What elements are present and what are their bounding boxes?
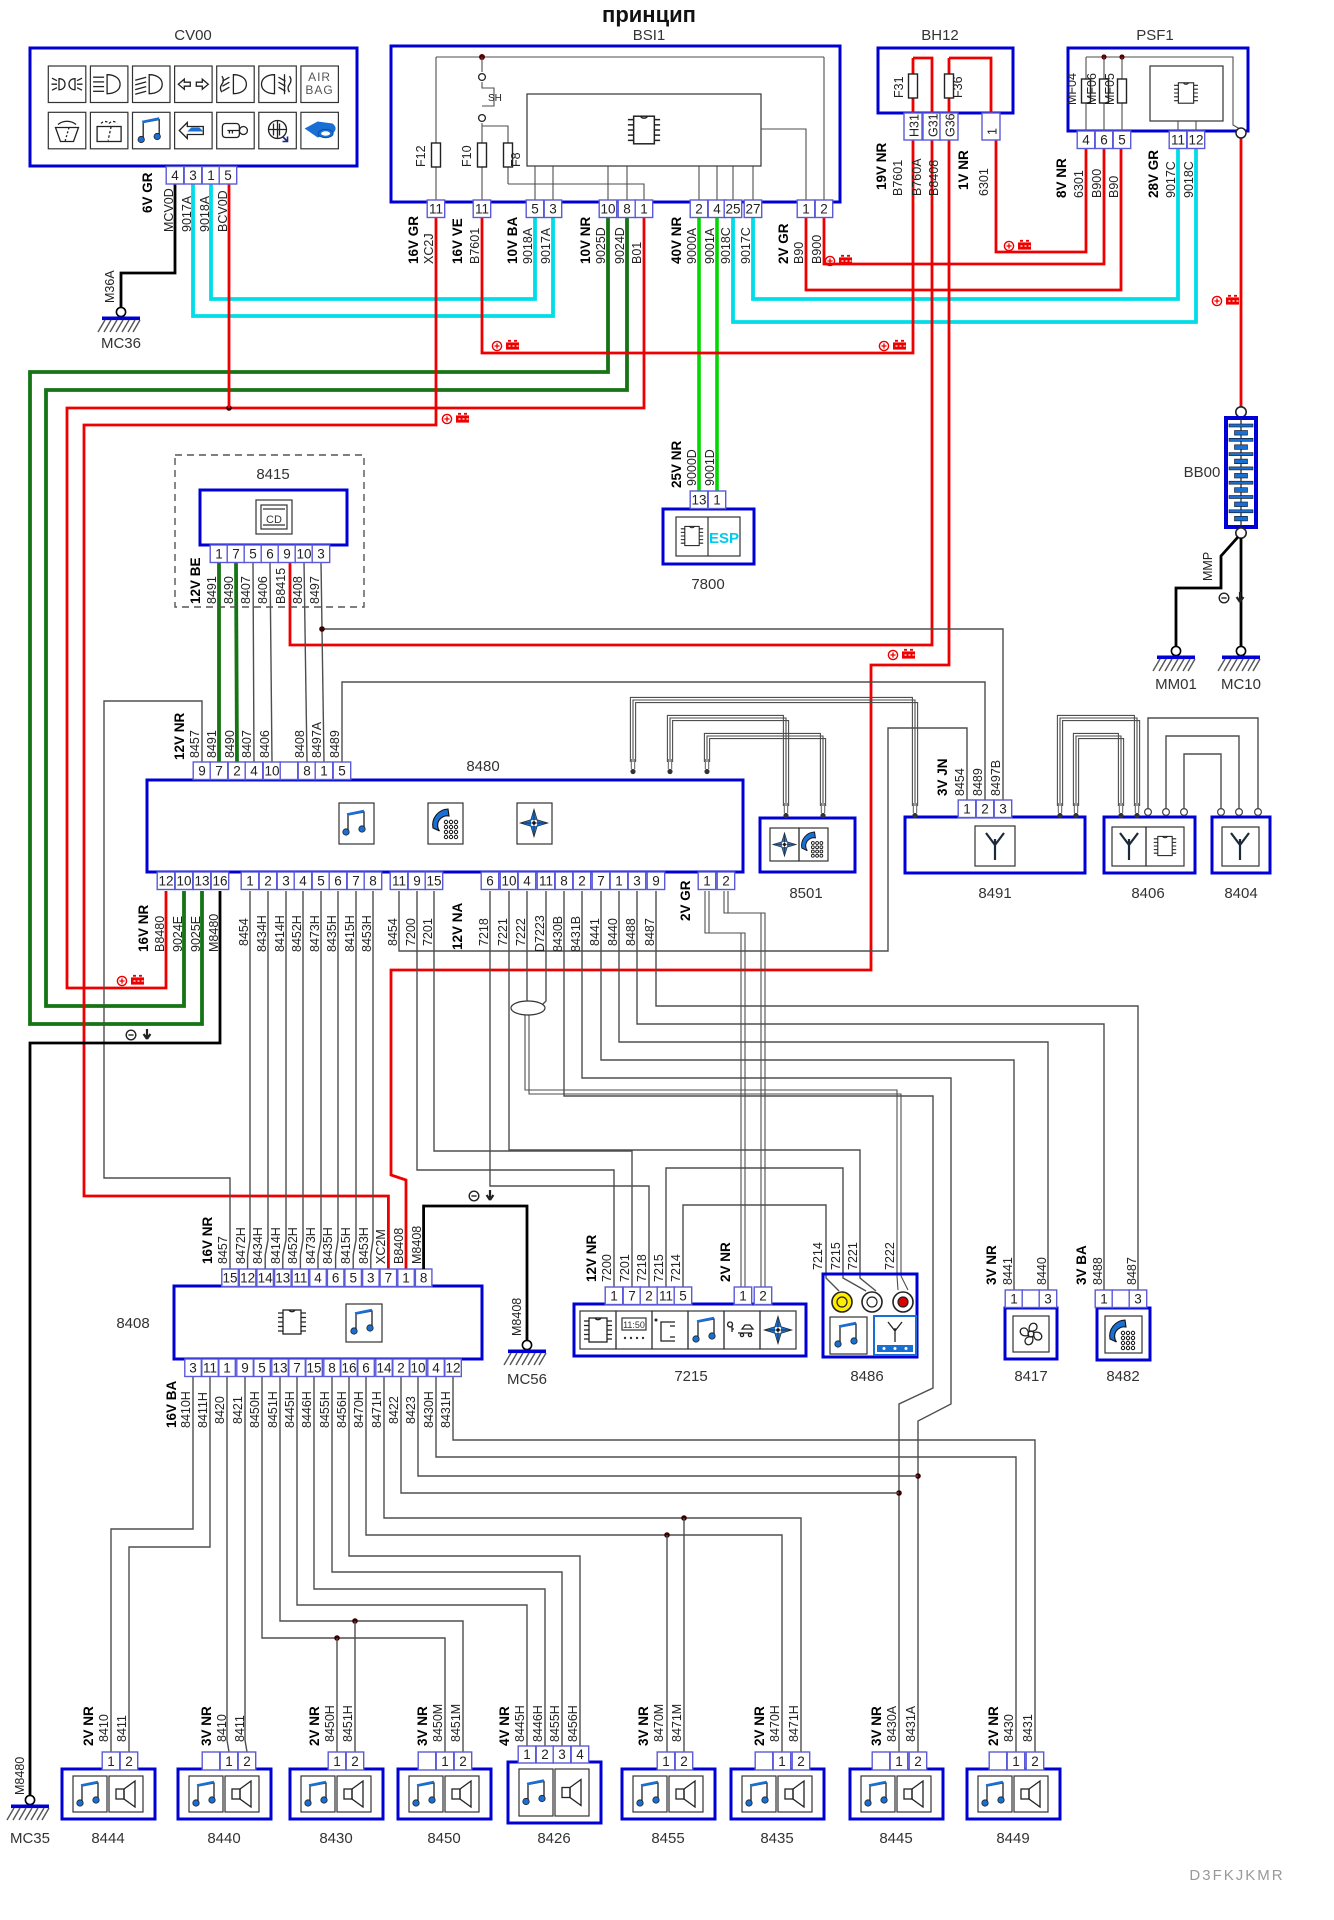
- speaker 8450: [398, 1769, 491, 1819]
- antenna module 8406: [1104, 817, 1195, 873]
- svg-text:9024E: 9024E: [171, 916, 185, 952]
- junction 8430A: [896, 1490, 902, 1496]
- wire 8431 long: [453, 1376, 1035, 1752]
- svg-text:BB00: BB00: [1184, 464, 1221, 481]
- battery symbol XC2J: [442, 414, 469, 424]
- svg-text:4: 4: [171, 168, 179, 183]
- svg-text:6301: 6301: [1072, 170, 1086, 198]
- svg-text:8453H: 8453H: [357, 1227, 371, 1264]
- battery symbol B8480: [117, 976, 144, 986]
- ground MC36: [98, 307, 140, 332]
- wire 8471M branch to 8455: [683, 1518, 685, 1752]
- svg-text:8410: 8410: [97, 1714, 111, 1742]
- svg-text:8450H: 8450H: [248, 1391, 262, 1428]
- svg-text:8406: 8406: [258, 730, 272, 758]
- svg-text:9025D: 9025D: [594, 227, 608, 264]
- wire 6301 red: [996, 140, 1086, 252]
- ESP unit 7800: [663, 509, 754, 564]
- wire 8430 long: [436, 1376, 1016, 1752]
- battery symbol B8408: [888, 650, 915, 660]
- svg-text:8414H: 8414H: [273, 915, 287, 952]
- 8480 top pins: [193, 762, 211, 780]
- wire 8445H: [297, 1376, 527, 1746]
- svg-text:7215: 7215: [652, 1254, 666, 1282]
- svg-text:8408: 8408: [291, 576, 305, 604]
- svg-text:1: 1: [895, 1754, 903, 1769]
- svg-text:5: 5: [249, 547, 257, 562]
- svg-text:G31: G31: [927, 113, 941, 137]
- wire XC2J red: [84, 217, 436, 1269]
- wire 8457 loop: [104, 701, 230, 1269]
- svg-text:16V NR: 16V NR: [200, 1216, 215, 1264]
- wire 8430B: [564, 891, 933, 1752]
- svg-text:7800: 7800: [691, 576, 724, 593]
- svg-text:8: 8: [369, 874, 377, 889]
- svg-text:2: 2: [820, 202, 828, 217]
- svg-text:BAG: BAG: [305, 83, 333, 97]
- svg-text:MC10: MC10: [1221, 676, 1261, 693]
- svg-text:2V NR: 2V NR: [307, 1706, 322, 1746]
- speaker 8455: [622, 1769, 715, 1819]
- wire BCV0D red: [228, 184, 231, 408]
- wire 9017A cyan: [193, 184, 553, 316]
- svg-text:F8: F8: [509, 152, 523, 167]
- svg-text:B900: B900: [1090, 169, 1104, 198]
- svg-text:3V NR: 3V NR: [199, 1706, 214, 1746]
- svg-text:11: 11: [1171, 133, 1185, 148]
- svg-text:7: 7: [352, 874, 360, 889]
- svg-text:3: 3: [282, 874, 290, 889]
- svg-text:28V GR: 28V GR: [1146, 150, 1161, 198]
- svg-text:3V NR: 3V NR: [984, 1245, 999, 1285]
- svg-text:8430: 8430: [1002, 1714, 1016, 1742]
- svg-text:8491: 8491: [205, 730, 219, 758]
- svg-text:8423: 8423: [404, 1396, 418, 1424]
- svg-text:10: 10: [501, 874, 516, 889]
- svg-text:9: 9: [283, 547, 291, 562]
- svg-text:16V VE: 16V VE: [450, 218, 465, 264]
- svg-text:10V NR: 10V NR: [578, 216, 593, 264]
- wire 8407: [253, 562, 254, 762]
- battery symbol B7601 right: [879, 341, 906, 351]
- svg-text:8434H: 8434H: [255, 915, 269, 952]
- speaker 8444: [62, 1769, 155, 1819]
- svg-text:6: 6: [334, 874, 342, 889]
- svg-text:8456H: 8456H: [566, 1705, 580, 1742]
- svg-text:3: 3: [367, 1271, 375, 1286]
- svg-text:9025E: 9025E: [189, 916, 203, 952]
- wire D7223 shield join: [534, 891, 546, 1007]
- svg-text:1: 1: [615, 874, 623, 889]
- svg-text:8406: 8406: [256, 576, 270, 604]
- svg-text:8491: 8491: [205, 576, 219, 604]
- junction 8451H branch: [352, 1618, 358, 1624]
- ground MC10: [1218, 646, 1260, 671]
- svg-text:2: 2: [797, 1754, 805, 1769]
- wire PSF to BB00 red: [1240, 138, 1243, 407]
- svg-text:8446H: 8446H: [300, 1391, 314, 1428]
- fuse box PSF1: [1068, 48, 1248, 131]
- svg-text:8454: 8454: [953, 768, 967, 796]
- svg-text:8452H: 8452H: [290, 915, 304, 952]
- svg-text:4: 4: [250, 764, 258, 779]
- wire 7214 link: [683, 1205, 839, 1291]
- multifunction display 7215: [574, 1304, 806, 1356]
- svg-text:6: 6: [266, 547, 274, 562]
- svg-text:10: 10: [410, 1361, 425, 1376]
- svg-text:8435H: 8435H: [325, 915, 339, 952]
- wire battery minus to MC10: [1240, 538, 1243, 646]
- svg-text:1: 1: [778, 1754, 786, 1769]
- svg-text:8414H: 8414H: [269, 1227, 283, 1264]
- svg-text:11: 11: [429, 202, 443, 217]
- svg-text:6: 6: [332, 1271, 340, 1286]
- svg-text:2V NR: 2V NR: [986, 1706, 1001, 1746]
- svg-text:15: 15: [306, 1361, 321, 1376]
- svg-text:8430H: 8430H: [422, 1391, 436, 1428]
- svg-text:1: 1: [1010, 1292, 1018, 1307]
- twisted pair 2V GR-NR A: [705, 891, 741, 1287]
- svg-text:8488: 8488: [624, 918, 638, 946]
- wire 8406-8404 outer: [1148, 718, 1258, 809]
- svg-text:1: 1: [662, 1754, 670, 1769]
- svg-text:8421: 8421: [231, 1396, 245, 1424]
- svg-text:7221: 7221: [496, 918, 510, 946]
- svg-text:MCV0D: MCV0D: [162, 188, 176, 232]
- telephone 8482: [1097, 1308, 1150, 1360]
- svg-text:12: 12: [158, 874, 173, 889]
- svg-text:9001D: 9001D: [703, 449, 717, 486]
- svg-text:8426: 8426: [537, 1830, 570, 1847]
- wire 8472H: [248, 891, 250, 1269]
- svg-text:7215: 7215: [829, 1242, 843, 1270]
- svg-text:12V NR: 12V NR: [584, 1234, 599, 1282]
- svg-text:8470H: 8470H: [352, 1391, 366, 1428]
- wire 7201: [434, 891, 632, 1287]
- svg-text:15: 15: [222, 1271, 237, 1286]
- svg-text:2: 2: [397, 1361, 405, 1376]
- svg-text:1: 1: [107, 1754, 115, 1769]
- wire 8488: [637, 891, 1104, 1290]
- svg-text:11: 11: [475, 202, 489, 217]
- svg-text:11: 11: [392, 874, 406, 889]
- wire 8473H: [318, 891, 321, 1269]
- svg-text:8440: 8440: [1035, 1257, 1049, 1285]
- speaker 8445: [850, 1769, 943, 1819]
- wire 8451H branch to 8430: [354, 1621, 356, 1752]
- svg-text:9: 9: [413, 874, 421, 889]
- svg-text:8454: 8454: [237, 918, 251, 946]
- svg-text:B8480: B8480: [153, 916, 167, 952]
- ground MM01: [1153, 646, 1195, 671]
- svg-text:8490: 8490: [223, 730, 237, 758]
- svg-text:4: 4: [314, 1271, 322, 1286]
- svg-text:1: 1: [223, 1361, 231, 1376]
- svg-text:7221: 7221: [846, 1242, 860, 1270]
- wire M8480 black: [30, 891, 220, 1796]
- svg-text:8422: 8422: [387, 1396, 401, 1424]
- coax loop to 8501 right: [704, 733, 820, 806]
- battery symbol 6301: [1004, 241, 1031, 251]
- svg-text:2: 2: [981, 802, 989, 817]
- svg-text:9017A: 9017A: [539, 227, 553, 264]
- svg-text:8441: 8441: [1001, 1257, 1015, 1285]
- 8501 coax terminals: [783, 803, 788, 818]
- svg-text:принцип: принцип: [602, 2, 696, 27]
- head unit 8480: [147, 780, 743, 872]
- 8408 bottom pins: [185, 1359, 202, 1377]
- svg-text:16: 16: [341, 1361, 356, 1376]
- wire 8414H: [283, 891, 286, 1269]
- svg-text:8471H: 8471H: [370, 1391, 384, 1428]
- svg-text:1: 1: [610, 1289, 618, 1304]
- svg-text:F36: F36: [951, 76, 965, 98]
- speaker 8449: [967, 1769, 1060, 1819]
- wire 9018C cyan: [733, 149, 1196, 322]
- svg-text:4: 4: [576, 1747, 584, 1762]
- svg-text:8453H: 8453H: [360, 915, 374, 952]
- svg-text:5: 5: [531, 202, 539, 217]
- wire 9001D green: [715, 217, 719, 491]
- svg-text:13: 13: [194, 874, 209, 889]
- svg-text:1: 1: [713, 493, 721, 508]
- svg-text:9: 9: [241, 1361, 249, 1376]
- svg-text:2: 2: [695, 202, 703, 217]
- wire 9018A cyan: [211, 184, 535, 299]
- svg-text:BCV0D: BCV0D: [216, 190, 230, 232]
- svg-text:7214: 7214: [669, 1254, 683, 1282]
- junction 8431A: [915, 1473, 921, 1479]
- svg-text:9000D: 9000D: [685, 449, 699, 486]
- svg-text:12V NR: 12V NR: [172, 712, 187, 760]
- svg-text:1: 1: [246, 874, 254, 889]
- wire 8406-8404 inner: [1184, 754, 1221, 809]
- speaker 8440: [178, 1769, 271, 1819]
- svg-text:7214: 7214: [811, 1242, 825, 1270]
- svg-text:2: 2: [914, 1754, 922, 1769]
- svg-text:11: 11: [293, 1271, 307, 1286]
- svg-text:ESP: ESP: [709, 530, 739, 547]
- svg-text:5: 5: [1118, 133, 1126, 148]
- wire 8471H: [384, 1376, 801, 1752]
- svg-text:8489: 8489: [328, 730, 342, 758]
- svg-text:7222: 7222: [514, 918, 528, 946]
- speaker 8426: [508, 1762, 601, 1823]
- svg-text:8445H: 8445H: [513, 1705, 527, 1742]
- svg-text:8408: 8408: [116, 1315, 149, 1332]
- svg-text:B8408: B8408: [392, 1228, 406, 1264]
- minus symbol near MC56: [469, 1190, 493, 1201]
- svg-text:7: 7: [232, 547, 240, 562]
- svg-text:11: 11: [539, 874, 553, 889]
- svg-text:3: 3: [189, 168, 197, 183]
- svg-text:8486: 8486: [850, 1368, 883, 1385]
- 7800 pins 13 1: [690, 491, 708, 509]
- 7215 pins: [605, 1287, 623, 1305]
- svg-text:B760A: B760A: [910, 158, 924, 196]
- svg-text:8415H: 8415H: [343, 915, 357, 952]
- wire B7601 red: [482, 140, 913, 353]
- speaker 8435: [731, 1769, 824, 1819]
- wire 8487: [656, 891, 1138, 1290]
- svg-text:13: 13: [275, 1271, 290, 1286]
- svg-text:PSF1: PSF1: [1136, 27, 1174, 44]
- 8491 coax terminal: [912, 803, 917, 818]
- svg-text:1: 1: [225, 1754, 233, 1769]
- coax loop 8491-8406 outer: [1057, 715, 1134, 806]
- svg-text:2V GR: 2V GR: [678, 880, 693, 921]
- svg-text:9017A: 9017A: [180, 195, 194, 232]
- svg-text:8490: 8490: [222, 576, 236, 604]
- svg-text:10: 10: [176, 874, 191, 889]
- svg-text:19V NR: 19V NR: [874, 142, 889, 190]
- svg-text:3: 3: [317, 547, 325, 562]
- 8491 pins 1 2 3: [958, 800, 976, 818]
- svg-text:9018C: 9018C: [1182, 161, 1196, 198]
- svg-text:40V NR: 40V NR: [669, 216, 684, 264]
- svg-text:B7601: B7601: [468, 228, 482, 264]
- svg-text:11: 11: [659, 1289, 673, 1304]
- wire 8453H: [371, 891, 373, 1269]
- svg-text:1: 1: [1012, 1754, 1020, 1769]
- svg-text:M8408: M8408: [510, 1298, 524, 1336]
- svg-text:9018A: 9018A: [521, 227, 535, 264]
- BH12 pins H31 G31 G36 1: [904, 113, 922, 140]
- svg-text:B900: B900: [810, 235, 824, 264]
- 8480 coax terminals: [630, 759, 635, 774]
- svg-text:8407: 8407: [239, 576, 253, 604]
- svg-text:2: 2: [243, 1754, 251, 1769]
- svg-text:2V NR: 2V NR: [752, 1706, 767, 1746]
- fan 8417: [1005, 1308, 1057, 1359]
- svg-text:8415: 8415: [256, 466, 289, 483]
- svg-text:8431B: 8431B: [569, 916, 583, 952]
- BSI1 pins: [427, 200, 445, 218]
- svg-text:1: 1: [703, 874, 711, 889]
- svg-text:8451H: 8451H: [266, 1391, 280, 1428]
- svg-text:9001A: 9001A: [703, 227, 717, 264]
- svg-text:D7223: D7223: [533, 915, 547, 952]
- svg-text:3: 3: [558, 1747, 566, 1762]
- svg-text:B01: B01: [630, 242, 644, 264]
- svg-text:8445: 8445: [879, 1830, 912, 1847]
- svg-text:D3FKJKMR: D3FKJKMR: [1189, 1867, 1284, 1884]
- svg-text:8449: 8449: [996, 1830, 1029, 1847]
- svg-text:8430: 8430: [319, 1830, 352, 1847]
- svg-text:2V NR: 2V NR: [718, 1242, 733, 1282]
- svg-text:F10: F10: [460, 145, 474, 167]
- svg-text:8444: 8444: [91, 1830, 124, 1847]
- svg-text:8450: 8450: [427, 1830, 460, 1847]
- svg-text:1: 1: [963, 802, 971, 817]
- svg-text:8415H: 8415H: [339, 1227, 353, 1264]
- svg-text:8408: 8408: [293, 730, 307, 758]
- speaker 8430: [290, 1769, 383, 1819]
- wire 8408 cd: [304, 562, 307, 762]
- wire 8454 to 8491: [399, 728, 967, 951]
- wire 8422: [401, 1376, 899, 1493]
- svg-text:M8408: M8408: [410, 1226, 424, 1264]
- wire 8431B: [582, 891, 951, 1752]
- svg-text:H31: H31: [908, 114, 922, 137]
- wire 8491 dark green: [217, 562, 221, 762]
- svg-text:8470H: 8470H: [768, 1705, 782, 1742]
- svg-text:10: 10: [264, 764, 279, 779]
- wire B900 red: [824, 149, 1104, 264]
- svg-text:8482: 8482: [1106, 1368, 1139, 1385]
- svg-text:7: 7: [628, 1289, 636, 1304]
- svg-text:8470M: 8470M: [652, 1704, 666, 1742]
- antenna amplifier 8491: [905, 817, 1085, 873]
- svg-text:5: 5: [317, 874, 325, 889]
- svg-text:3: 3: [1134, 1292, 1142, 1307]
- twist ellipse: [511, 1001, 545, 1015]
- svg-text:8457: 8457: [188, 730, 202, 758]
- wire 8455H: [332, 1376, 562, 1746]
- svg-text:2: 2: [541, 1747, 549, 1762]
- svg-text:B8408: B8408: [927, 160, 941, 196]
- svg-text:1: 1: [333, 1754, 341, 1769]
- svg-text:8: 8: [560, 874, 568, 889]
- svg-text:1: 1: [320, 764, 328, 779]
- svg-text:10: 10: [600, 202, 615, 217]
- svg-text:8: 8: [420, 1271, 428, 1286]
- svg-text:4: 4: [713, 202, 721, 217]
- svg-text:MM01: MM01: [1155, 676, 1197, 693]
- svg-text:2: 2: [125, 1754, 133, 1769]
- ground MC56: [504, 1340, 546, 1365]
- svg-text:11: 11: [203, 1361, 217, 1376]
- svg-text:BSI1: BSI1: [633, 27, 666, 44]
- svg-text:9: 9: [652, 874, 660, 889]
- 8406 terminals: [1118, 803, 1123, 818]
- svg-text:12: 12: [240, 1271, 255, 1286]
- svg-text:CV00: CV00: [174, 27, 212, 44]
- wire 8452H: [300, 891, 303, 1269]
- battery symbol B7601 left: [492, 341, 519, 351]
- svg-text:16: 16: [212, 874, 227, 889]
- svg-text:4: 4: [1082, 133, 1090, 148]
- wire M8408 to ground: [424, 1206, 527, 1340]
- svg-text:12V NA: 12V NA: [450, 902, 465, 950]
- wire 8420: [227, 1376, 229, 1752]
- svg-text:12: 12: [445, 1361, 460, 1376]
- svg-text:8420: 8420: [213, 1396, 227, 1424]
- wire 8434H: [265, 891, 268, 1269]
- svg-text:1: 1: [739, 1289, 747, 1304]
- CD changer 8415: [175, 455, 364, 607]
- svg-text:8410H: 8410H: [179, 1391, 193, 1428]
- svg-text:7: 7: [385, 1271, 393, 1286]
- svg-text:7222: 7222: [883, 1242, 897, 1270]
- wire 9025D dark green: [30, 217, 608, 1024]
- svg-text:8411: 8411: [115, 1715, 129, 1742]
- svg-text:MF06: MF06: [1085, 73, 1099, 105]
- battery symbol BB00 feed: [1212, 296, 1239, 306]
- 8408 top pins: [222, 1269, 239, 1287]
- svg-text:6V GR: 6V GR: [140, 172, 155, 213]
- svg-text:2: 2: [233, 764, 241, 779]
- svg-text:8471H: 8471H: [787, 1705, 801, 1742]
- svg-text:8472H: 8472H: [234, 1227, 248, 1264]
- svg-text:6: 6: [362, 1361, 370, 1376]
- svg-text:7200: 7200: [600, 1254, 614, 1282]
- display module 8501: [760, 818, 855, 872]
- svg-text:8457: 8457: [216, 1236, 230, 1264]
- wire 8451H: [280, 1376, 463, 1752]
- svg-text:8488: 8488: [1091, 1257, 1105, 1285]
- wire 9017C cyan: [753, 149, 1178, 299]
